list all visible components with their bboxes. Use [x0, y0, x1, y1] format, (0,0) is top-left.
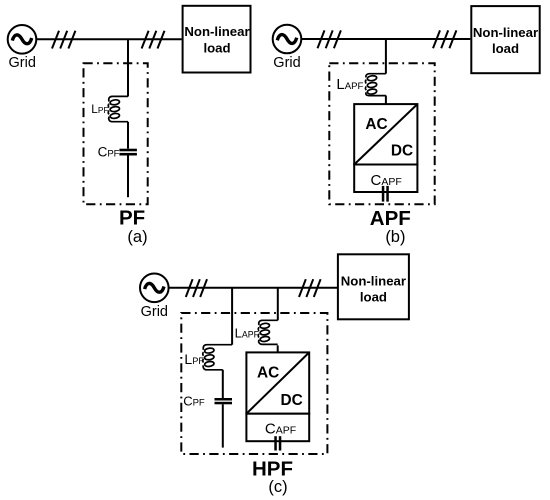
APF boundary box (dash-dot) [329, 63, 434, 204]
inductor LPF (c) [203, 345, 232, 370]
svg-text:(c): (c) [268, 478, 287, 496]
wire LPF to CPF (a) [127, 122, 129, 149]
svg-text:APF: APF [370, 207, 411, 230]
three-phase slashes (a) left [52, 31, 75, 49]
PF boundary box (dash-dot) [84, 63, 148, 204]
svg-text:load: load [203, 41, 230, 56]
svg-text:load: load [492, 41, 519, 56]
capacitor plates CAPF (b) [382, 186, 389, 202]
inductor LPF (a) [108, 96, 128, 121]
three-phase slashes (b) left [318, 30, 341, 48]
AC source Grid (b) [273, 25, 302, 54]
wire LPF to CPF (c) [222, 370, 224, 398]
three-phase slashes (c) right [299, 279, 321, 297]
wire bus (a) [36, 38, 181, 40]
svg-text:DC: DC [391, 142, 413, 159]
wire bus (c) [169, 287, 338, 289]
svg-text:Grid: Grid [141, 304, 168, 320]
capacitor plates CAPF (c) [274, 436, 281, 450]
AC source Grid (a) [8, 25, 37, 54]
capacitor box CAPF (c) [246, 414, 309, 442]
svg-text:Grid: Grid [273, 55, 300, 71]
wire below CPF (c) [222, 404, 224, 447]
svg-text:(b): (b) [385, 228, 405, 246]
non-linear load (c) [338, 254, 409, 319]
wire LAPF to converter (b) [385, 96, 387, 105]
wire junction 2 (c) down to LAPF branch [277, 288, 279, 321]
svg-text:Non-linear: Non-linear [473, 25, 538, 40]
svg-text:LPF: LPF [91, 102, 108, 116]
non-linear load (b) [471, 6, 539, 73]
wire junction (b) down to APF branch [385, 39, 387, 74]
svg-text:(a): (a) [127, 228, 147, 246]
svg-text:PF: PF [119, 206, 145, 229]
wire below CPF (a) [127, 156, 129, 198]
inductor LAPF (b) [365, 74, 386, 96]
capacitor CPF (a) [119, 149, 136, 156]
three-phase slashes (c) left [186, 279, 207, 297]
wire bus (b) [301, 38, 470, 40]
svg-text:Non-linear: Non-linear [184, 24, 249, 39]
capacitor CPF (c) [215, 398, 233, 404]
AC source Grid (c) [140, 274, 169, 303]
wire LAPF to converter (c) [277, 345, 279, 352]
svg-text:Grid: Grid [8, 55, 35, 71]
svg-text:Non-linear: Non-linear [341, 273, 406, 288]
non-linear load (a) [183, 6, 251, 73]
wire junction (a) down to PF branch [127, 39, 129, 96]
HPF boundary box (dash-dot) [181, 313, 327, 454]
svg-text:AC: AC [257, 365, 279, 382]
svg-text:DC: DC [281, 392, 303, 409]
three-phase slashes (b) right [433, 30, 456, 48]
three-phase slashes (a) right [142, 31, 165, 49]
svg-text:AC: AC [365, 116, 387, 133]
inductor LAPF (c) [258, 320, 278, 344]
wire junction 1 (c) down to LPF branch [231, 288, 233, 345]
AC/DC converter (c) [246, 352, 309, 413]
svg-text:load: load [360, 289, 387, 304]
AC/DC converter (b) [354, 104, 417, 164]
capacitor box CAPF (b) [354, 165, 417, 193]
